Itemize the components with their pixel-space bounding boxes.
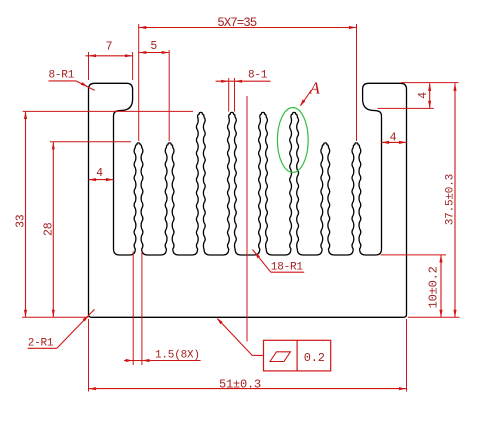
svg-text:10±0.2: 10±0.2 bbox=[426, 266, 440, 308]
dimension 28 bbox=[50, 141, 131, 143]
svg-text:4: 4 bbox=[96, 167, 103, 180]
dimension 8-1 bbox=[216, 80, 271, 82]
dimension 5X7=35 bbox=[139, 27, 357, 29]
svg-text:2-R1: 2-R1 bbox=[28, 337, 54, 349]
svg-text:28: 28 bbox=[42, 222, 55, 236]
dimension 1.5(8X) bbox=[132, 252, 134, 366]
svg-text:0.2: 0.2 bbox=[304, 351, 325, 365]
svg-text:51±0.3: 51±0.3 bbox=[219, 377, 261, 391]
dimension 10±0.2 bbox=[381, 254, 446, 256]
reference line bbox=[246, 96, 248, 342]
svg-text:8-1: 8-1 bbox=[248, 70, 268, 82]
svg-text:4: 4 bbox=[390, 131, 397, 144]
dimension 4 (right stem width) bbox=[382, 141, 407, 143]
dimension 7 bbox=[86, 55, 133, 57]
dimension 4 (right cap height) bbox=[401, 82, 459, 84]
dimension 33 bbox=[23, 110, 193, 112]
dimension 51±0.3 bbox=[88, 319, 90, 392]
dimension 4 (left stem width) bbox=[89, 179, 114, 181]
svg-text:8-R1: 8-R1 bbox=[49, 70, 75, 82]
svg-text:4: 4 bbox=[417, 92, 430, 99]
heatsink profile outline bbox=[89, 83, 407, 317]
svg-text:A: A bbox=[309, 79, 321, 98]
detail circle A (green ellipse) bbox=[277, 108, 308, 173]
svg-text:1.5(8X): 1.5(8X) bbox=[155, 350, 200, 362]
svg-text:18-R1: 18-R1 bbox=[271, 261, 304, 273]
svg-text:5X7=35: 5X7=35 bbox=[217, 16, 257, 30]
flatness tolerance frame bbox=[252, 354, 263, 356]
svg-text:7: 7 bbox=[106, 41, 113, 54]
dimension 37.5±0.3 bbox=[454, 83, 456, 317]
dimension 5 bbox=[139, 52, 170, 54]
svg-text:5: 5 bbox=[150, 40, 157, 53]
svg-text:37.5±0.3: 37.5±0.3 bbox=[445, 174, 457, 225]
svg-text:33: 33 bbox=[15, 214, 28, 228]
